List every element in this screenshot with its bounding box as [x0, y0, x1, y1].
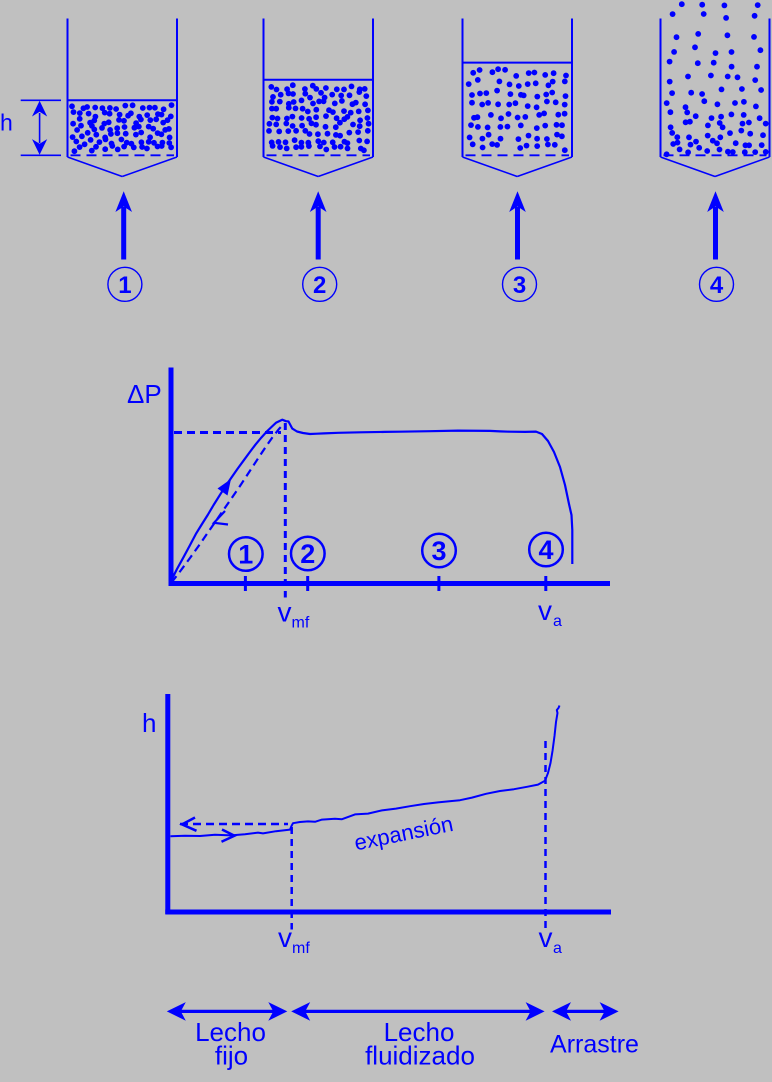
svg-text:a: a — [553, 940, 562, 957]
svg-text:4: 4 — [538, 535, 553, 565]
svg-text:v: v — [278, 597, 292, 628]
svg-text:v: v — [278, 922, 292, 953]
svg-text:v: v — [539, 922, 553, 953]
svg-text:ΔP: ΔP — [127, 379, 162, 409]
svg-text:h: h — [142, 708, 156, 738]
svg-text:Arrastre: Arrastre — [550, 1031, 639, 1059]
svg-text:1: 1 — [238, 540, 253, 570]
svg-text:3: 3 — [431, 536, 446, 566]
svg-text:fijo: fijo — [215, 1041, 248, 1071]
svg-text:h: h — [0, 110, 13, 136]
svg-text:mf: mf — [292, 615, 310, 632]
svg-text:mf: mf — [292, 940, 310, 957]
svg-text:v: v — [538, 595, 552, 626]
svg-text:4: 4 — [710, 272, 724, 299]
svg-text:2: 2 — [300, 539, 315, 569]
svg-text:1: 1 — [118, 272, 131, 299]
svg-text:fluidizado: fluidizado — [365, 1041, 475, 1071]
svg-text:3: 3 — [513, 272, 526, 299]
svg-text:2: 2 — [313, 272, 326, 299]
svg-text:a: a — [553, 613, 562, 630]
